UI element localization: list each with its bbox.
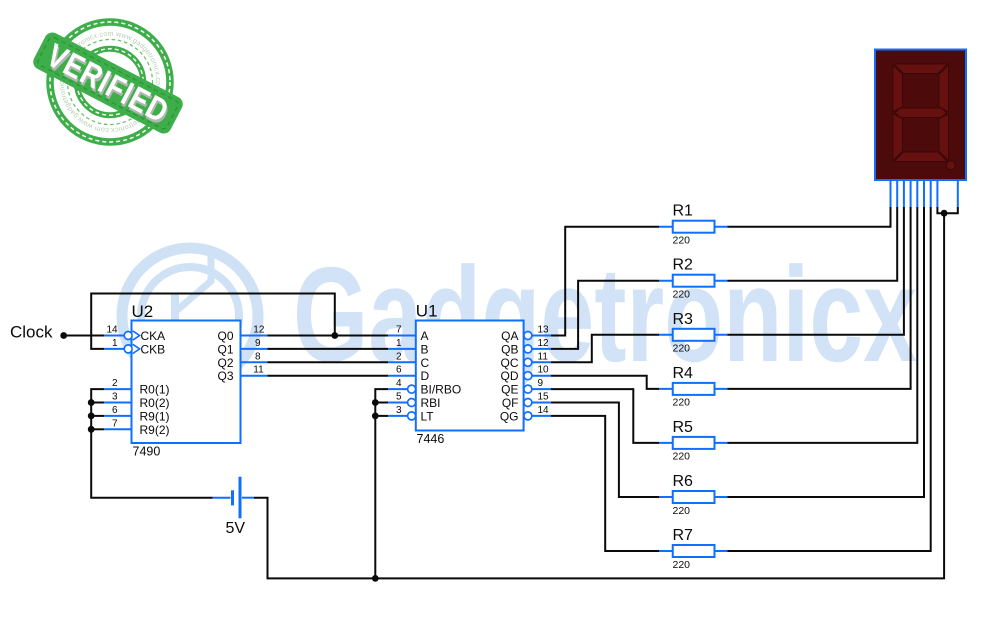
- stamp circular text: [64, 36, 156, 128]
- U1 pin B (1): [388, 338, 429, 357]
- svg-text:7490: 7490: [133, 445, 161, 459]
- wire: R1 to display pin1: [728, 207, 891, 227]
- segment c: [939, 114, 949, 161]
- svg-text:7: 7: [112, 418, 118, 429]
- svg-text:6: 6: [112, 405, 118, 416]
- wire: R4 to display pin4: [728, 207, 911, 389]
- resistor R1: [659, 203, 728, 247]
- svg-text:220: 220: [673, 505, 691, 517]
- svg-text:C: C: [421, 356, 430, 370]
- wire: U2 reset pins bus down to battery: [91, 389, 212, 498]
- U1 pin QG (14): [500, 405, 551, 424]
- svg-text:7446: 7446: [417, 432, 445, 446]
- wire: R5 to display pin5: [728, 207, 918, 443]
- svg-text:QA: QA: [501, 329, 518, 343]
- svg-text:8: 8: [255, 351, 261, 362]
- svg-text:220: 220: [673, 451, 691, 463]
- svg-text:220: 220: [673, 235, 691, 247]
- display pin 4: [910, 180, 912, 207]
- wire: Q0 feedback loop to CKB: [91, 294, 335, 349]
- wire: R7 to display pin7: [728, 207, 931, 551]
- svg-text:13: 13: [538, 325, 550, 336]
- display pin 5: [916, 180, 918, 207]
- segment f: [893, 65, 903, 112]
- svg-text:U1: U1: [416, 302, 438, 321]
- 7-segment display DS1: [875, 50, 966, 208]
- svg-text:220: 220: [673, 397, 691, 409]
- resistor R5: [659, 419, 728, 463]
- svg-text:Q3: Q3: [217, 369, 233, 383]
- svg-text:Clock: Clock: [10, 323, 53, 342]
- stamp dashed circle: [68, 40, 153, 125]
- display pin 2: [896, 180, 898, 207]
- resistor R6: [659, 473, 728, 517]
- segment dp: [946, 161, 955, 170]
- svg-text:QG: QG: [500, 409, 519, 423]
- junction R9(1): [88, 413, 95, 420]
- svg-text:QC: QC: [501, 356, 519, 370]
- svg-text:4: 4: [396, 378, 402, 389]
- svg-text:15: 15: [538, 392, 550, 403]
- wire: LT stub: [375, 415, 388, 417]
- wire: QA to R1: [551, 227, 659, 336]
- svg-text:220: 220: [673, 289, 691, 301]
- svg-text:Q2: Q2: [217, 356, 233, 370]
- U2 pin CKB (1): [104, 338, 165, 357]
- svg-text:RBI: RBI: [421, 396, 441, 410]
- svg-text:R4: R4: [673, 365, 694, 382]
- svg-text:Q1: Q1: [217, 342, 233, 356]
- U1 pin LT (3): [388, 405, 434, 424]
- U1 pin A (7): [388, 325, 429, 344]
- svg-text:B: B: [421, 342, 429, 356]
- segment a: [894, 64, 948, 74]
- U2 pin R0(1) (2): [104, 378, 170, 397]
- U1 pin RBI (5): [388, 392, 441, 411]
- wire: QE to R5: [551, 389, 659, 443]
- svg-text:12: 12: [253, 325, 265, 336]
- wire: R3 to display pin3: [728, 207, 904, 335]
- U2 pin R9(2) (7): [104, 418, 170, 437]
- U1 pin QB (12): [501, 338, 551, 357]
- svg-text:R0(2): R0(2): [140, 396, 170, 410]
- stamp inner ring: [77, 49, 143, 115]
- wire: clock to CKA: [64, 335, 104, 337]
- segment g: [895, 108, 947, 118]
- svg-text:R1: R1: [673, 203, 694, 220]
- wire: U2 Q1 to U1 B: [268, 348, 389, 350]
- U2 pin Q2 (8): [217, 351, 267, 370]
- svg-text:2: 2: [112, 378, 118, 389]
- watermark logo circle: [122, 248, 258, 384]
- wire: display pin8 to common: [937, 207, 944, 213]
- svg-text:3: 3: [112, 392, 118, 403]
- U1 pin BI/RBO (4): [388, 378, 461, 397]
- wire: R0(2) stub: [91, 402, 104, 404]
- display pin 3: [903, 180, 905, 207]
- svg-text:R2: R2: [673, 257, 694, 274]
- display pin 9 common: [957, 180, 959, 207]
- svg-text:R0(1): R0(1): [140, 383, 170, 397]
- display pin 7: [930, 180, 932, 207]
- battery BAT1 5V: [213, 477, 254, 537]
- junction RBI: [372, 399, 379, 406]
- display pin 1: [890, 180, 892, 207]
- wire: R2 to display pin2: [728, 207, 898, 281]
- svg-text:1: 1: [112, 338, 118, 349]
- junction R0(2): [88, 399, 95, 406]
- wire: U2 Q3 to U1 D: [268, 375, 389, 377]
- svg-text:QE: QE: [501, 383, 518, 397]
- svg-text:CKB: CKB: [141, 342, 166, 356]
- resistor R4: [659, 365, 728, 409]
- display pin 8: [936, 180, 938, 207]
- wire: QF to R6: [551, 403, 659, 498]
- svg-text:14: 14: [538, 405, 550, 416]
- junction Q0/CKB loop: [331, 332, 338, 339]
- svg-text:1: 1: [396, 338, 402, 349]
- wire: U2 Q2 to U1 C: [268, 361, 389, 363]
- resistor R7: [659, 527, 728, 571]
- junction R9(2): [88, 426, 95, 433]
- svg-text:2: 2: [396, 351, 402, 362]
- svg-text:3: 3: [396, 405, 402, 416]
- svg-text:7: 7: [396, 325, 402, 336]
- svg-text:QD: QD: [501, 369, 519, 383]
- svg-text:220: 220: [673, 559, 691, 571]
- stamp outer ring: [50, 22, 170, 142]
- U2 pin R0(2) (3): [104, 392, 170, 411]
- verified stamp: [0, 0, 186, 142]
- svg-text:R9(1): R9(1): [140, 409, 170, 423]
- junction display common: [941, 210, 948, 217]
- svg-text:10: 10: [538, 365, 550, 376]
- svg-text:9: 9: [538, 378, 544, 389]
- U1 pin D (6): [388, 365, 430, 384]
- svg-text:12: 12: [538, 338, 550, 349]
- svg-text:BI/RBO: BI/RBO: [421, 383, 462, 397]
- IC U1 7446 body: [416, 302, 524, 447]
- U2 pin Q3 (11): [217, 365, 267, 384]
- wire: R6 to display pin6: [728, 207, 925, 497]
- U1 pin C (2): [388, 351, 430, 370]
- svg-text:R6: R6: [673, 473, 694, 490]
- svg-text:R9(2): R9(2): [140, 423, 170, 437]
- wire: RBI stub: [375, 402, 388, 404]
- segment b: [939, 65, 949, 112]
- svg-text:D: D: [421, 369, 430, 383]
- svg-text:QF: QF: [502, 396, 519, 410]
- U1 pin QF (15): [502, 392, 551, 411]
- junction rail/LT bus: [372, 575, 379, 582]
- IC U2 7490 body: [132, 302, 241, 459]
- wire: QC to R3: [551, 335, 659, 363]
- wire: U2 Q0 to U1 A: [268, 335, 389, 337]
- resistor R2: [659, 257, 728, 301]
- U1 pin QD (10): [501, 365, 552, 384]
- svg-text:14: 14: [106, 325, 118, 336]
- U1 pin QA (13): [501, 325, 551, 344]
- wire: U1 BI/RBO RBI LT bus to rail: [375, 389, 388, 578]
- svg-text:5V: 5V: [226, 520, 246, 537]
- U2 pin CKA (14): [104, 325, 165, 344]
- wire: R9(2) stub: [91, 428, 104, 430]
- svg-text:11: 11: [253, 365, 264, 376]
- U2 pin Q1 (9): [217, 338, 267, 357]
- svg-text:Q0: Q0: [217, 329, 233, 343]
- svg-text:11: 11: [538, 351, 549, 362]
- svg-text:CKA: CKA: [141, 329, 166, 343]
- stamp banner VERIFIED: [30, 30, 185, 137]
- U1 pin QE (9): [501, 378, 551, 397]
- wire: R9(1) stub: [91, 415, 104, 417]
- wire: display pin9 to common: [944, 207, 958, 213]
- wire: QG to R7: [551, 416, 659, 551]
- svg-text:R3: R3: [673, 311, 694, 328]
- svg-text:R7: R7: [673, 527, 694, 544]
- svg-text:9: 9: [255, 338, 261, 349]
- junction LT: [372, 413, 379, 420]
- svg-text:R5: R5: [673, 419, 694, 436]
- segment e: [893, 114, 903, 161]
- svg-text:U2: U2: [132, 302, 154, 321]
- svg-text:Gadgetronicx: Gadgetronicx: [293, 239, 917, 390]
- wire: battery plus to bottom rail: [254, 213, 944, 578]
- svg-text:QB: QB: [501, 342, 518, 356]
- segment d: [894, 152, 948, 162]
- node clock terminal dot: [60, 332, 67, 339]
- svg-text:5: 5: [396, 392, 402, 403]
- svg-text:6: 6: [396, 365, 402, 376]
- U1 pin QC (11): [501, 351, 552, 370]
- resistor R3: [659, 311, 728, 355]
- wire: QD to R4: [551, 376, 659, 389]
- svg-text:A: A: [421, 329, 429, 343]
- U2 pin Q0 (12): [217, 325, 267, 344]
- display pin 6: [923, 180, 925, 207]
- svg-text:LT: LT: [421, 409, 435, 423]
- wire: QB to R2: [551, 281, 659, 349]
- U2 pin R9(1) (6): [104, 405, 170, 424]
- svg-text:220: 220: [673, 343, 691, 355]
